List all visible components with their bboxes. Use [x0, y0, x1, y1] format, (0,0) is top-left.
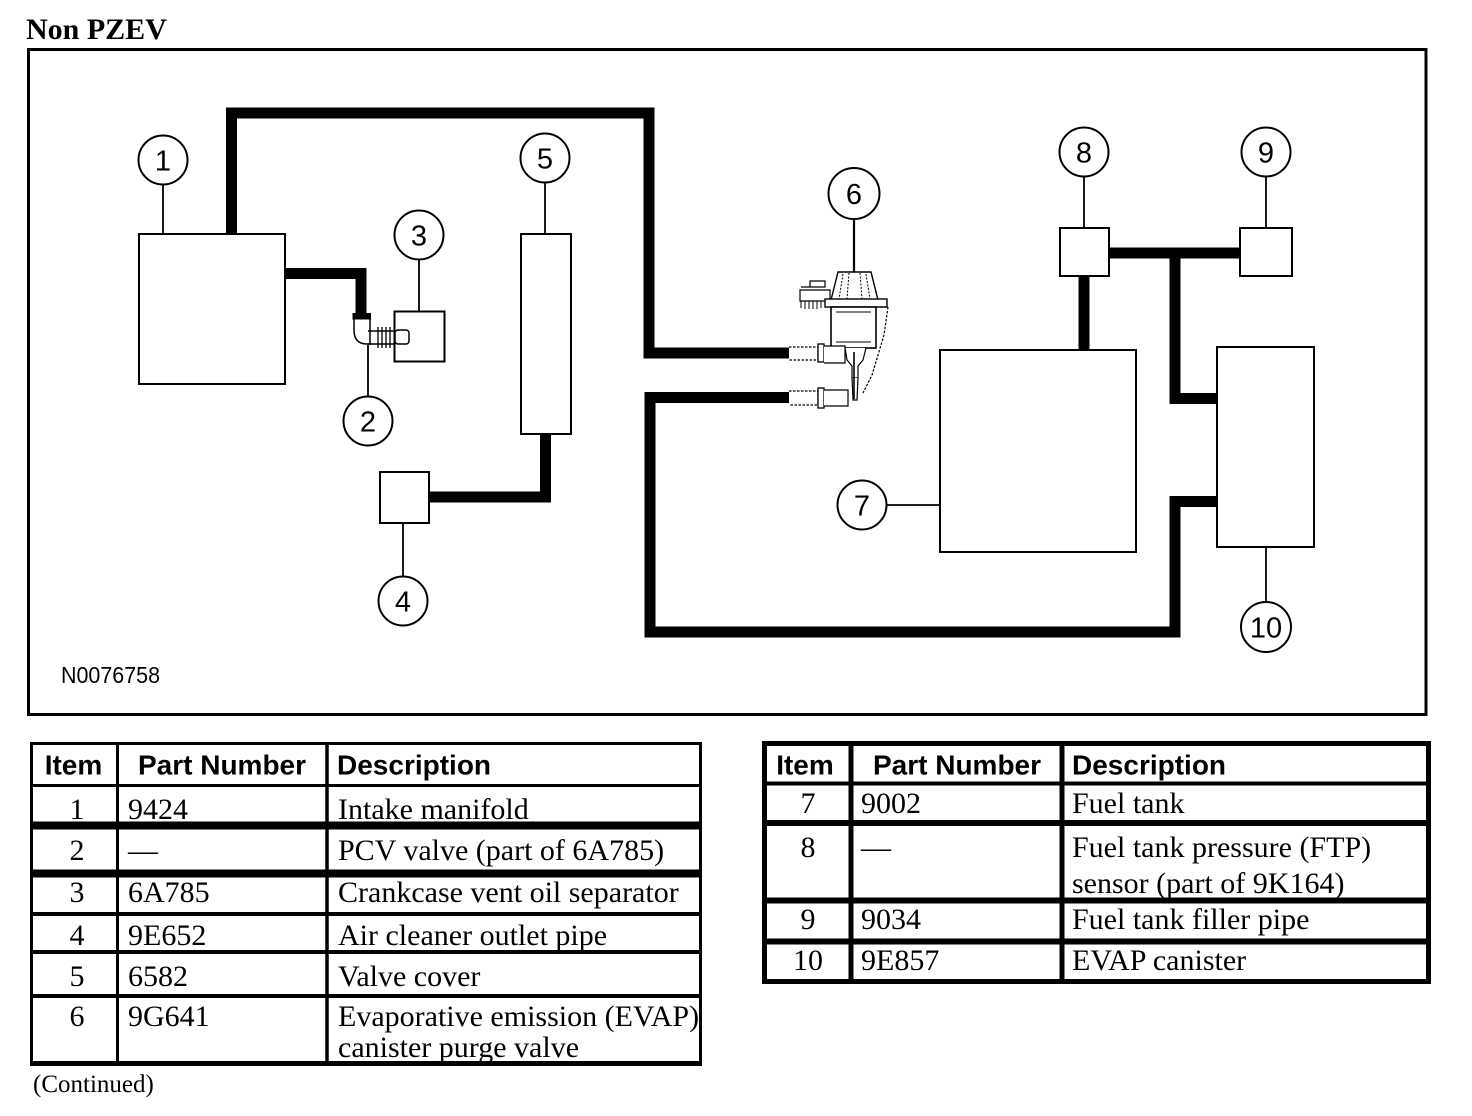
- callout circle 10: [1241, 602, 1291, 652]
- svg-text:8: 8: [1076, 138, 1092, 170]
- svg-text:6: 6: [846, 179, 862, 211]
- svg-text:2: 2: [70, 834, 85, 867]
- svg-text:3: 3: [411, 221, 427, 253]
- leader line 8: [1083, 177, 1085, 228]
- svg-text:Description: Description: [1072, 750, 1226, 781]
- svg-text:6582: 6582: [128, 960, 188, 993]
- svg-text:6A785: 6A785: [128, 876, 210, 909]
- svg-text:—: —: [127, 834, 159, 867]
- hose: purge valve to EVAP canister (lower line): [650, 398, 1218, 633]
- right skirt: [863, 307, 888, 393]
- svg-text:1: 1: [70, 793, 85, 826]
- box 4 air cleaner outlet pipe: [380, 472, 429, 523]
- callout circle 8: [1060, 128, 1109, 177]
- box 8 FTP sensor: [1060, 228, 1109, 276]
- svg-text:sensor (part of 9K164): sensor (part of 9K164): [1072, 867, 1344, 900]
- cap (trapezoid): [831, 272, 878, 300]
- hose: FTP sensor to fuel tank: [1079, 275, 1090, 351]
- box 9 fuel tank filler pipe: [1240, 228, 1292, 276]
- svg-text:9424: 9424: [128, 793, 188, 826]
- upper hose: [789, 347, 818, 360]
- svg-text:N0076758: N0076758: [61, 662, 160, 688]
- callout circle 1: [139, 136, 188, 185]
- box 10 EVAP canister: [1217, 347, 1314, 547]
- svg-text:7: 7: [801, 787, 816, 820]
- svg-text:Fuel tank: Fuel tank: [1072, 787, 1185, 820]
- svg-text:Air cleaner outlet pipe: Air cleaner outlet pipe: [338, 919, 607, 952]
- svg-text:10: 10: [793, 944, 823, 977]
- svg-text:2: 2: [360, 407, 376, 439]
- box 3 crankcase vent oil separator: [395, 312, 445, 362]
- svg-text:9G641: 9G641: [128, 1000, 210, 1033]
- svg-text:4: 4: [70, 919, 85, 952]
- svg-text:EVAP canister: EVAP canister: [1072, 944, 1246, 977]
- leader line 7: [887, 504, 940, 506]
- hose: intake manifold to PCV valve: [285, 274, 361, 317]
- svg-text:PCV valve (part of 6A785): PCV valve (part of 6A785): [338, 834, 664, 867]
- box 7 fuel tank: [940, 350, 1136, 552]
- EVAP canister purge valve (item 6) illustration: [789, 272, 888, 408]
- callout circle 4: [379, 577, 428, 626]
- callout circle 7: [838, 481, 887, 530]
- svg-text:5: 5: [70, 960, 85, 993]
- svg-text:Fuel tank pressure (FTP): Fuel tank pressure (FTP): [1072, 831, 1371, 864]
- lower hose: [789, 391, 818, 405]
- svg-text:Crankcase vent oil separator: Crankcase vent oil separator: [338, 876, 679, 909]
- svg-text:5: 5: [537, 144, 553, 176]
- svg-text:—: —: [860, 831, 892, 864]
- leader line 6: [853, 219, 855, 272]
- svg-text:Non PZEV: Non PZEV: [26, 13, 167, 46]
- callout circle 5: [521, 134, 570, 183]
- callout circle 2: [344, 397, 393, 446]
- svg-text:(Continued): (Continued): [33, 1071, 154, 1098]
- svg-text:9: 9: [801, 903, 816, 936]
- leader line 9: [1265, 177, 1267, 228]
- svg-text:9034: 9034: [861, 903, 921, 936]
- svg-text:9: 9: [1258, 138, 1274, 170]
- svg-text:Item: Item: [776, 750, 834, 781]
- leader line 4: [402, 523, 404, 577]
- svg-text:7: 7: [854, 491, 870, 523]
- PCV valve (item 2) illustration: [353, 313, 410, 348]
- svg-text:6: 6: [70, 1000, 85, 1033]
- svg-text:Valve cover: Valve cover: [338, 960, 480, 993]
- RIGHT TABLE: [762, 742, 1431, 982]
- left spout: [801, 281, 825, 287]
- svg-text:8: 8: [801, 831, 816, 864]
- callout circle 3: [395, 211, 444, 260]
- hose: FTP sensor to filler pipe: [1108, 248, 1241, 259]
- svg-text:4: 4: [395, 587, 411, 619]
- svg-text:canister purge valve: canister purge valve: [338, 1031, 579, 1064]
- hose: intake manifold to EVAP purge valve (top line): [232, 113, 790, 353]
- hose: junction down to EVAP canister top port: [1175, 252, 1218, 399]
- svg-text:10: 10: [1250, 613, 1282, 645]
- svg-text:Evaporative emission (EVAP): Evaporative emission (EVAP): [338, 1000, 699, 1033]
- body: [831, 307, 876, 348]
- leader line 2: [367, 345, 369, 397]
- leader line 1: [162, 185, 164, 233]
- LEFT TABLE: [30, 742, 702, 1065]
- svg-text:Intake manifold: Intake manifold: [338, 793, 529, 826]
- leader line 3: [418, 260, 420, 311]
- svg-text:Item: Item: [45, 750, 103, 781]
- box 1 intake manifold: [139, 234, 285, 384]
- svg-text:Fuel tank filler pipe: Fuel tank filler pipe: [1072, 903, 1309, 936]
- diagram border frame: [29, 50, 1427, 715]
- svg-text:Part Number: Part Number: [138, 750, 306, 781]
- callout circle 6: [829, 168, 880, 219]
- snout: [845, 348, 866, 378]
- leader line 5: [544, 183, 546, 233]
- svg-text:9002: 9002: [861, 787, 921, 820]
- callout circle 9: [1242, 128, 1291, 177]
- box 5 valve cover: [521, 234, 571, 434]
- flange: [825, 299, 887, 307]
- svg-text:Description: Description: [337, 750, 491, 781]
- svg-text:3: 3: [70, 876, 85, 909]
- leader line 10: [1265, 547, 1267, 602]
- svg-text:1: 1: [155, 146, 171, 178]
- svg-text:9E652: 9E652: [128, 919, 206, 952]
- svg-text:Part Number: Part Number: [873, 750, 1041, 781]
- svg-text:9E857: 9E857: [861, 944, 939, 977]
- hose: valve cover to air cleaner outlet pipe: [428, 434, 546, 497]
